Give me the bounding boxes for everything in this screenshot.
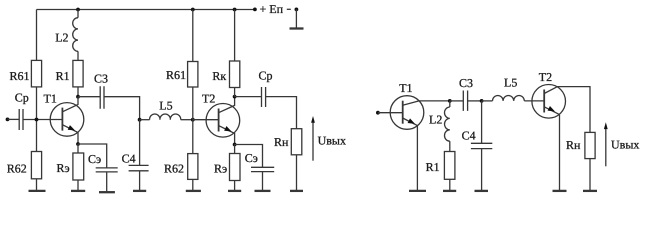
inductor L5 right: [493, 96, 525, 101]
node T2 emitter: [233, 143, 237, 147]
node C: [448, 99, 452, 103]
wire T2 emitter to ground right: [559, 115, 561, 190]
transistor T1: [44, 91, 84, 144]
resistor R62: [31, 152, 41, 179]
resistor R61: [31, 60, 41, 87]
svg-text:Cр: Cр: [15, 90, 29, 104]
svg-text:C4: C4: [462, 129, 476, 143]
ground under R62 stage2: [186, 190, 201, 192]
wire L2 to R1 right: [449, 141, 451, 151]
ground under C4: [133, 190, 146, 192]
node input terminal: [6, 118, 10, 122]
wire C3 to node A: [104, 97, 140, 120]
wire input to Cp: [8, 118, 20, 120]
wire R61 branch upper: [36, 10, 38, 61]
resistor Re stage1: [73, 153, 84, 180]
wire C3 to node D: [468, 100, 482, 102]
wire R61 bottom to base node: [36, 87, 38, 152]
wire collector to C3: [78, 96, 100, 98]
wire T1 collector to node C: [419, 100, 450, 102]
ground under T2 right: [553, 190, 567, 192]
wire node B to T2 base: [193, 119, 219, 121]
wire emitter T2 to Ce2: [235, 145, 263, 168]
transistor T2 right: [532, 70, 566, 118]
capacitor C4 right: [471, 143, 492, 148]
inductor L2 right: [444, 107, 449, 141]
capacitor Ce stage1: [96, 168, 118, 172]
wire Cp2 to Rn: [266, 97, 297, 129]
svg-text:R61: R61: [166, 68, 186, 82]
wire node C to C3 right: [450, 100, 464, 102]
wire L5 to node B: [181, 119, 193, 121]
ground under R1 right: [443, 190, 456, 192]
wire T1 emitter to ground: [416, 126, 418, 190]
inductor L2: [73, 18, 78, 52]
wire collector T2 to Cp2: [235, 96, 262, 98]
wire node D to C4 right: [481, 101, 483, 143]
wire node A to L5: [140, 119, 150, 121]
minus sign: [287, 8, 291, 10]
resistor Rk: [230, 61, 240, 88]
ground under C4 right: [475, 190, 489, 192]
inductor L5: [150, 114, 181, 120]
svg-text:Uвых: Uвых: [611, 138, 639, 152]
node Rk rail junction: [233, 8, 237, 12]
wire rail to R61 stage2: [192, 10, 194, 62]
svg-text:L2: L2: [429, 112, 442, 126]
wire C4 to ground right: [481, 149, 483, 190]
transistor T2: [202, 91, 240, 144]
resistor Re stage2: [230, 154, 241, 181]
capacitor Cp output: [262, 87, 266, 107]
wire Re to ground: [77, 180, 79, 190]
svg-text:R1: R1: [426, 160, 440, 174]
svg-text:Cэ: Cэ: [88, 152, 101, 166]
wire emitter T2 to Re2: [234, 145, 236, 154]
wire Ce2 to ground: [262, 172, 264, 190]
svg-text:Rк: Rк: [212, 69, 226, 83]
svg-text:L2: L2: [55, 30, 68, 44]
wire emitter to Re: [77, 144, 79, 153]
svg-text:Cр: Cр: [259, 68, 273, 82]
wire Cp to base node: [23, 119, 62, 121]
wire Rn to ground right: [589, 159, 591, 190]
wire R62 to ground: [36, 179, 38, 190]
wire top supply rail: [37, 9, 255, 11]
svg-text:R62: R62: [7, 162, 27, 176]
capacitor Cp input: [19, 109, 23, 130]
wire rail to L2: [77, 10, 79, 18]
node base T1: [35, 118, 39, 122]
svg-text:R62: R62: [164, 161, 184, 175]
wire R1 to collector node: [77, 87, 79, 97]
svg-text:Rн: Rн: [566, 138, 581, 152]
svg-text:C4: C4: [122, 152, 136, 166]
svg-text:Rэ: Rэ: [214, 162, 227, 176]
node input right: [376, 111, 380, 115]
ground under T1 right: [409, 190, 426, 192]
svg-text:T1: T1: [399, 81, 412, 95]
capacitor Ce stage2: [251, 167, 274, 171]
svg-text:Cэ: Cэ: [245, 151, 258, 165]
svg-text:C3: C3: [94, 71, 108, 85]
svg-text:T1: T1: [44, 91, 57, 105]
wire node C to L2: [449, 101, 451, 107]
node T1 emitter: [76, 142, 80, 146]
node A: [138, 118, 142, 122]
node D: [480, 99, 484, 103]
node L2 rail junction: [76, 8, 80, 12]
arrow Uout left: [312, 122, 314, 160]
svg-text:L5: L5: [504, 75, 517, 89]
wire Ce to ground: [106, 172, 108, 191]
resistor Rn load: [291, 129, 302, 155]
wire node A to C4: [139, 120, 141, 166]
svg-text:R61: R61: [10, 69, 30, 83]
svg-text:Uвых: Uвых: [318, 134, 346, 148]
wire T2 collector to Rn right: [558, 87, 591, 133]
ground under Rn right: [583, 190, 597, 192]
resistor R61 stage2: [188, 62, 198, 88]
ground under Rn: [290, 190, 303, 192]
resistor R1: [73, 60, 83, 87]
wire emitter to Ce: [78, 144, 107, 168]
svg-text:Rн: Rн: [274, 135, 289, 149]
svg-text:C3: C3: [459, 76, 473, 90]
ground bar minus terminal: [290, 27, 304, 29]
node T2 collector: [233, 95, 237, 99]
resistor R1 right: [444, 152, 455, 180]
node R61 stage2 rail junction: [191, 8, 195, 12]
ground under Re stage1: [71, 190, 85, 192]
ground under Re stage2: [228, 190, 241, 192]
wire rail to Rk: [234, 10, 236, 62]
wire C4 to ground: [139, 171, 141, 190]
wire L5 to T2 base right: [524, 100, 544, 102]
arrow Uout right: [605, 129, 607, 167]
wire L2 to R1: [77, 51, 79, 60]
node rail end terminal: [253, 7, 257, 11]
node minus terminal: [295, 7, 299, 11]
node B: [191, 118, 195, 122]
wire R62 stage2 to ground: [192, 179, 194, 190]
wire Rn to ground: [296, 155, 298, 190]
svg-text:Rэ: Rэ: [57, 161, 70, 175]
wire node D to L5 right: [482, 100, 493, 102]
resistor Rn right: [585, 132, 595, 158]
svg-text:R1: R1: [56, 69, 70, 83]
ground under Ce stage2: [255, 190, 271, 192]
wire R61 stage2 to node B: [192, 87, 194, 154]
capacitor C3: [100, 86, 104, 108]
node T1 collector: [76, 95, 80, 99]
capacitor C4: [129, 165, 149, 170]
svg-text:T2: T2: [202, 91, 215, 105]
wire Re2 to ground: [234, 181, 236, 191]
wire Rk to collector node: [234, 88, 236, 97]
ground under Ce stage1: [99, 191, 115, 193]
wire minus terminal down: [295, 9, 297, 27]
capacitor C3 right: [463, 91, 467, 111]
svg-text:+ Eп: + Eп: [260, 2, 284, 16]
svg-text:T2: T2: [539, 70, 552, 84]
svg-text:L5: L5: [159, 99, 172, 113]
ground under R62: [29, 190, 46, 192]
wire R1 to ground right: [449, 179, 451, 190]
wire input to T1 base: [378, 112, 403, 114]
resistor R62 stage2: [188, 154, 198, 180]
transistor T1 right: [390, 81, 424, 129]
